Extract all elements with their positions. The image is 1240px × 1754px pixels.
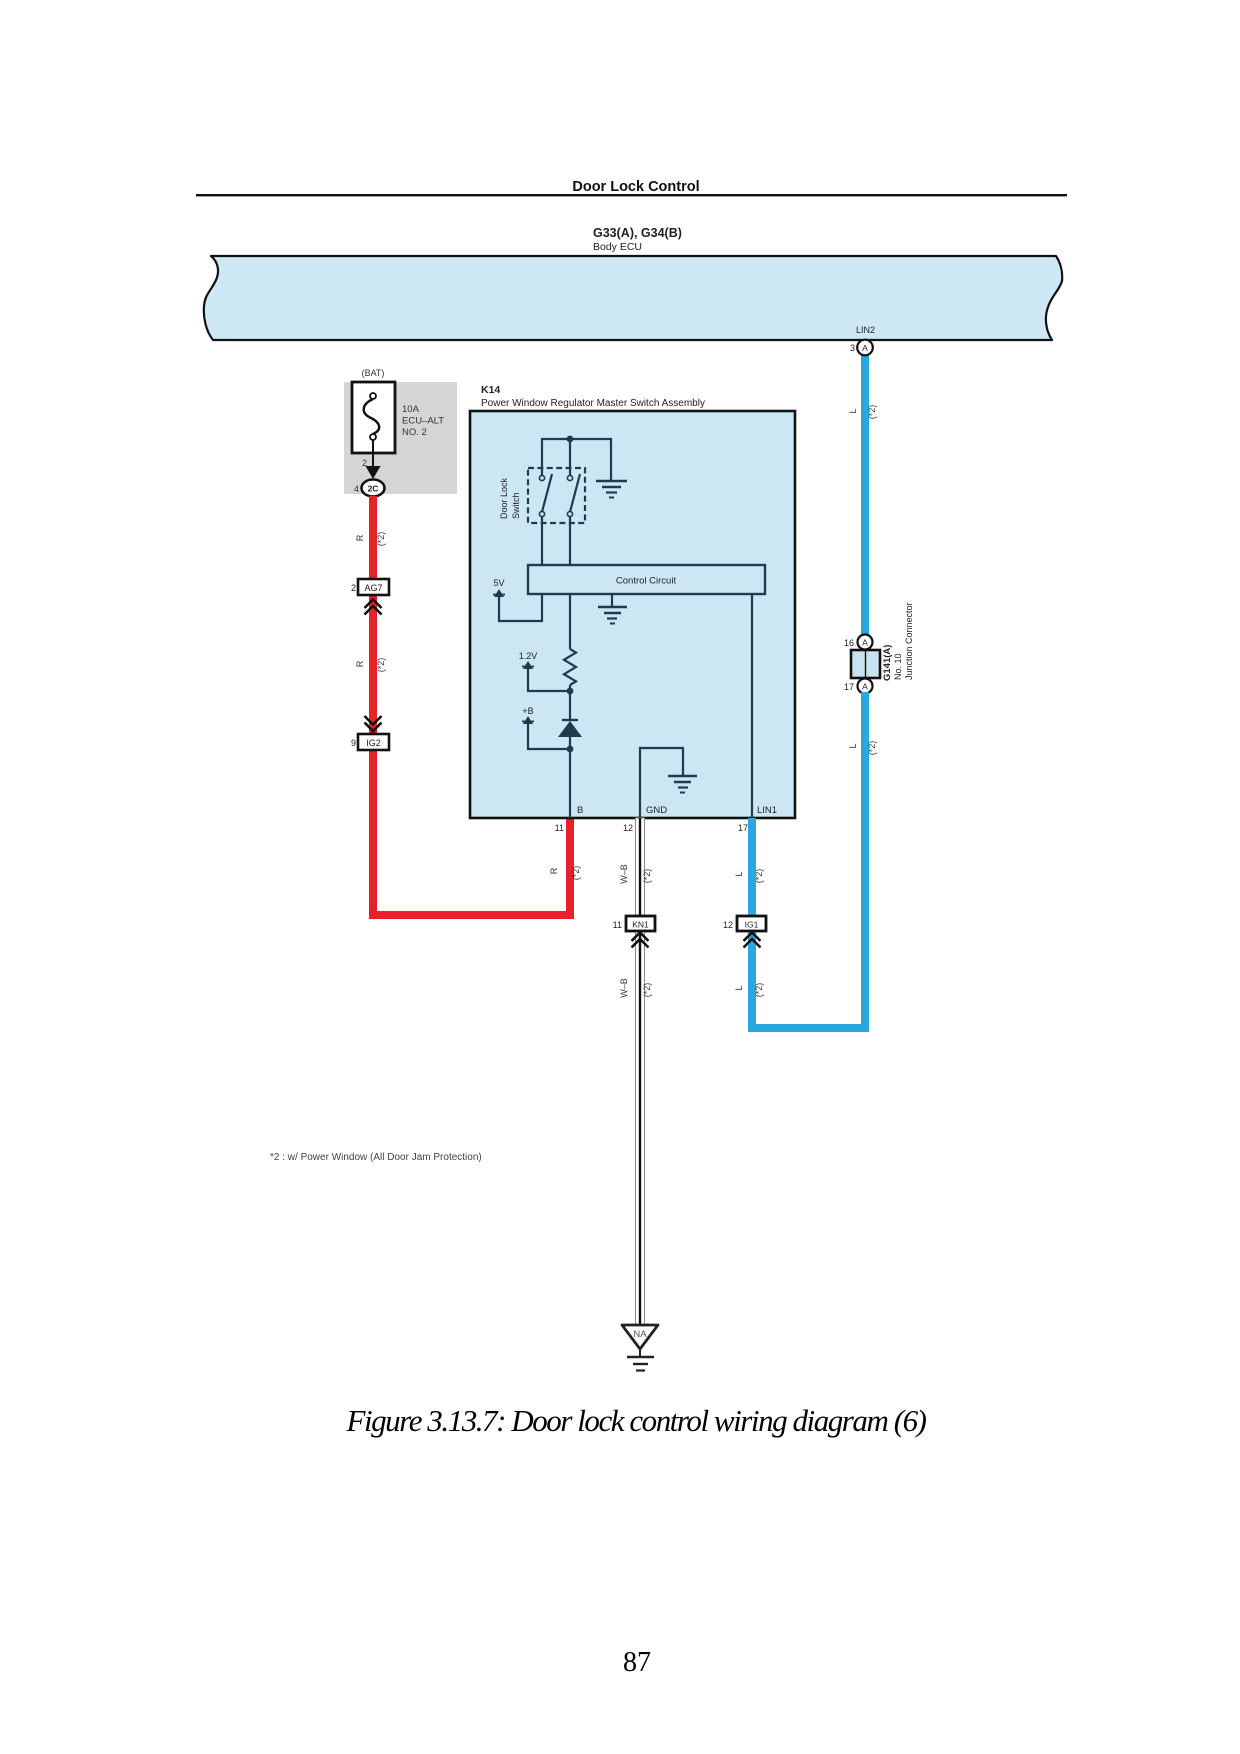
page number bbox=[623, 1647, 651, 1678]
power 1.2V source bbox=[519, 651, 570, 691]
svg-text:87: 87 bbox=[623, 1647, 651, 1678]
svg-text:4: 4 bbox=[354, 484, 359, 494]
wire LIN2 blue vertical upper segment bbox=[861, 350, 869, 638]
svg-text:11: 11 bbox=[555, 823, 564, 833]
header title Door Lock Control bbox=[196, 179, 1067, 196]
junction dot node diode/+B bbox=[567, 746, 574, 753]
svg-text:2C: 2C bbox=[368, 484, 379, 494]
svg-text:W–B: W–B bbox=[619, 864, 629, 884]
junction dot node resistor/1.2V bbox=[567, 688, 574, 695]
svg-text:(*2): (*2) bbox=[642, 983, 652, 998]
wire battery feed red bbox=[369, 496, 574, 919]
wire label R (*2) upper red bbox=[355, 532, 386, 547]
svg-text:Switch: Switch bbox=[511, 492, 521, 519]
control circuit U1 box bbox=[528, 565, 765, 594]
ECU K14 Power Window Regulator Master Switch Assembly box bbox=[470, 384, 795, 818]
svg-text:KN1: KN1 bbox=[632, 920, 649, 930]
pin numbers 11 12 17 below K14 bbox=[555, 823, 748, 833]
wire label L (*2) on lower LIN2 bbox=[848, 741, 877, 756]
switch contacts and blades bbox=[539, 474, 580, 517]
svg-text:5V: 5V bbox=[493, 578, 504, 588]
wire diode to pin B bbox=[569, 737, 571, 818]
wire label W-B (*2) upper bbox=[619, 864, 652, 884]
svg-text:NO. 2: NO. 2 bbox=[402, 427, 427, 438]
svg-text:R: R bbox=[355, 660, 365, 667]
wire resistor to diode node bbox=[569, 685, 571, 720]
svg-text:A: A bbox=[862, 682, 868, 692]
svg-text:(*2): (*2) bbox=[867, 741, 877, 756]
node LIN2 pin label bbox=[856, 325, 875, 335]
svg-text:(*2): (*2) bbox=[571, 866, 581, 881]
svg-text:Door Lock Control: Door Lock Control bbox=[572, 179, 699, 195]
wire label R (*2) on red riser to B bbox=[549, 866, 581, 881]
resistor R internal bbox=[564, 649, 576, 685]
pin 3 connector A on Body ECU bbox=[850, 340, 873, 356]
pin labels B GND LIN1 bbox=[577, 805, 777, 816]
wire GND net and ground symbol bbox=[640, 748, 697, 818]
svg-text:GND: GND bbox=[646, 805, 667, 816]
svg-text:L: L bbox=[734, 871, 744, 876]
svg-text:9: 9 bbox=[351, 738, 356, 748]
fuse F 10A ECU-ALT NO.2 bbox=[352, 382, 444, 453]
wire LIN1 blue drop from pin 17 bbox=[748, 818, 756, 916]
svg-text:11: 11 bbox=[613, 920, 622, 930]
diode D internal bbox=[558, 720, 582, 737]
svg-text:(BAT): (BAT) bbox=[362, 368, 385, 378]
wire label L (*2) on LIN1 drop bbox=[734, 869, 764, 884]
svg-text:17: 17 bbox=[738, 823, 748, 833]
svg-text:Figure 3.13.7: Door lock contr: Figure 3.13.7: Door lock control wiring … bbox=[345, 1403, 926, 1438]
wire control circuit to resistor bbox=[569, 594, 571, 649]
svg-text:1.2V: 1.2V bbox=[519, 651, 538, 661]
switch SW door lock switch dashed box bbox=[499, 468, 585, 523]
wire label L (*2) lower LIN1 bbox=[734, 983, 764, 998]
svg-text:16: 16 bbox=[844, 638, 854, 648]
svg-text:Door Lock: Door Lock bbox=[499, 477, 509, 519]
svg-text:Control Circuit: Control Circuit bbox=[616, 576, 677, 587]
svg-text:(*2): (*2) bbox=[754, 983, 764, 998]
power 5V source bbox=[493, 578, 542, 621]
svg-text:17: 17 bbox=[844, 682, 854, 692]
wires switch to control circuit bbox=[542, 516, 570, 565]
svg-text:LIN1: LIN1 bbox=[757, 805, 777, 816]
wire switch bus bbox=[542, 439, 611, 481]
note *2 bbox=[270, 1152, 482, 1163]
svg-text:L: L bbox=[848, 408, 858, 413]
svg-text:3: 3 bbox=[850, 343, 855, 353]
figure caption bbox=[345, 1403, 926, 1438]
svg-text:*2 : w/ Power Window (All Door: *2 : w/ Power Window (All Door Jam Prote… bbox=[270, 1152, 482, 1163]
svg-text:(*2): (*2) bbox=[376, 532, 386, 547]
svg-text:10A: 10A bbox=[402, 404, 420, 415]
svg-text:R: R bbox=[549, 867, 559, 874]
wire label L (*2) upper LIN2 bbox=[848, 405, 877, 420]
wire W-B lower segment to ground bbox=[636, 931, 645, 1325]
svg-text:No. 10: No. 10 bbox=[893, 653, 903, 680]
svg-text:R: R bbox=[355, 534, 365, 541]
svg-text:2: 2 bbox=[351, 583, 356, 593]
wire fuse to connector 2C with pin 2 arrow bbox=[362, 440, 381, 479]
svg-text:L: L bbox=[734, 985, 744, 990]
svg-text:L: L bbox=[848, 743, 858, 748]
ground below control circuit bbox=[598, 594, 627, 624]
wire LIN1 internal bbox=[751, 594, 753, 818]
svg-text:LIN2: LIN2 bbox=[856, 325, 875, 335]
svg-text:Power Window Regulator Master: Power Window Regulator Master Switch Ass… bbox=[481, 398, 705, 409]
svg-text:B: B bbox=[577, 805, 583, 816]
ground at door lock switch bbox=[596, 481, 627, 498]
connector KN1 pin 11 bbox=[613, 916, 655, 948]
svg-text:IG1: IG1 bbox=[745, 920, 759, 930]
fuse block grey panel bbox=[344, 368, 457, 494]
connector IG2 pin 9 bbox=[351, 716, 389, 750]
svg-text:AG7: AG7 bbox=[364, 583, 382, 593]
svg-text:Body ECU: Body ECU bbox=[593, 241, 642, 253]
connector AG7 pin 2 bbox=[351, 579, 389, 615]
svg-text:W–B: W–B bbox=[619, 978, 629, 998]
connector IG1 pin 12 bbox=[723, 916, 766, 948]
ECU G33/G34 Body ECU band bbox=[204, 226, 1062, 340]
svg-text:A: A bbox=[862, 638, 868, 648]
svg-text:(*2): (*2) bbox=[867, 405, 877, 420]
wire label R (*2) mid red bbox=[355, 658, 386, 673]
svg-text:ECU–ALT: ECU–ALT bbox=[402, 416, 444, 427]
svg-text:12: 12 bbox=[723, 920, 733, 930]
svg-text:12: 12 bbox=[623, 823, 633, 833]
svg-text:IG2: IG2 bbox=[366, 738, 381, 748]
connector 2C oval with pin 4 bbox=[354, 480, 385, 497]
svg-text:+B: +B bbox=[522, 706, 533, 716]
svg-text:A: A bbox=[862, 343, 868, 353]
svg-text:NA: NA bbox=[633, 1329, 647, 1340]
junction connector G141(A) No.10 bbox=[844, 602, 914, 693]
svg-text:K14: K14 bbox=[481, 384, 500, 396]
svg-text:G141(A): G141(A) bbox=[882, 645, 893, 681]
svg-text:G33(A), G34(B): G33(A), G34(B) bbox=[593, 226, 682, 240]
svg-text:(*2): (*2) bbox=[376, 658, 386, 673]
svg-text:Junction Connector: Junction Connector bbox=[904, 602, 914, 680]
ground NA triangle bbox=[622, 1325, 658, 1371]
wire label W-B (*2) lower bbox=[619, 978, 652, 998]
svg-text:(*2): (*2) bbox=[642, 869, 652, 884]
wire LIN1 blue lower and across to LIN2 bbox=[748, 931, 869, 1032]
wire W-B upper segment bbox=[636, 818, 645, 916]
wire LIN2 blue vertical lower segment bbox=[861, 692, 869, 1031]
power +B source bbox=[522, 706, 570, 749]
junction dot on switch bus bbox=[567, 436, 574, 443]
